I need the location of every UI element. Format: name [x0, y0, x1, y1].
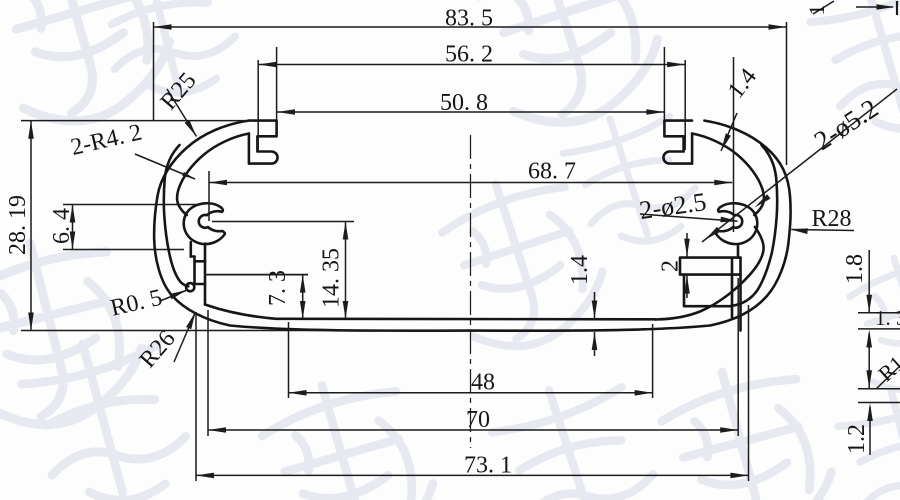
dimension line 68.7: [209, 182, 732, 184]
right channel outer wall: [739, 258, 742, 331]
dimension 1.8 arrows: [868, 250, 870, 312]
left ledge top (7.3 reference): [205, 274, 308, 276]
extension line 56.2 left: [257, 60, 259, 150]
detail diagonal R1: [876, 366, 900, 389]
top right detail arrow: [856, 6, 893, 8]
inner bottom curve left: [205, 305, 276, 319]
extension line 83.5 left: [153, 22, 155, 120]
svg-text:83. 5: 83. 5: [445, 6, 493, 32]
svg-text:50. 8: 50. 8: [440, 90, 488, 116]
extension line 48 right: [652, 324, 654, 398]
vertical centerline: [470, 135, 472, 448]
dimension line 50.8: [277, 111, 664, 113]
svg-text:7. 3: 7. 3: [265, 270, 291, 306]
extension line 68.7 left: [208, 171, 210, 221]
leader 2-phi2.5: [640, 214, 738, 221]
boss-to-rib connector: [737, 246, 740, 258]
cavity floor line: [276, 317, 655, 320]
extension line 6.4 top: [63, 204, 197, 206]
detail feature line 1.8 top: [858, 312, 900, 314]
dimension 2 rib arrows: [686, 233, 688, 257]
extension line 83.5 right: [786, 22, 788, 165]
leader R25: [167, 89, 197, 137]
extension line boss centre: [212, 221, 354, 223]
left column step: [195, 260, 206, 263]
profile outer boundary right half: [471, 121, 791, 331]
right panel-slot inner line to boss: [692, 134, 764, 216]
screw boss with hole, left (mirror): [184, 203, 225, 244]
right screw channel inner wall: [731, 258, 734, 317]
R0.5 bead: [186, 283, 194, 291]
svg-text:48: 48: [471, 370, 495, 396]
leader R0.5: [160, 291, 186, 302]
dimension line 56.2: [259, 64, 686, 66]
leader 1.4 top right: [721, 113, 737, 151]
extension line 56.2 right: [684, 60, 686, 150]
left support column under boss: [204, 244, 207, 305]
dimension line 6.4: [72, 205, 74, 250]
extension line 73.1 left: [195, 312, 197, 481]
svg-text:70: 70: [466, 407, 490, 433]
svg-text:68. 7: 68. 7: [528, 159, 576, 185]
left column left face: [193, 257, 196, 285]
extension line 68.7 right boss: [733, 57, 735, 232]
extension line 73.1 right: [748, 305, 750, 481]
extension line 48 left: [288, 322, 290, 398]
detail feature line 1.2 bottom: [858, 402, 900, 404]
leader 2-R4.2: [135, 154, 195, 179]
right ledge wall: [684, 275, 731, 307]
svg-text:14. 35: 14. 35: [319, 248, 345, 308]
watermark background: [0, 0, 184, 137]
svg-text:2-R4. 2: 2-R4. 2: [68, 119, 144, 161]
svg-text:6. 4: 6. 4: [49, 208, 75, 244]
svg-text:28. 19: 28. 19: [5, 195, 31, 255]
dimension 1.2 arrows: [869, 407, 871, 455]
top slide-groove and hook, right (mirror): [663, 121, 692, 164]
top right leader fragment: [813, 1, 834, 14]
svg-text:R26: R26: [135, 326, 181, 373]
svg-text:1. 3: 1. 3: [875, 306, 900, 330]
left slot floor: [194, 283, 205, 286]
svg-text:1.2: 1.2: [844, 424, 870, 454]
svg-text:R28: R28: [811, 206, 851, 232]
svg-text:2-ø2.5: 2-ø2.5: [638, 187, 709, 225]
dimension 1.4 bottom wall arrows: [594, 292, 596, 319]
extension line 70 left: [207, 310, 209, 436]
right wall inner line: [732, 145, 778, 306]
dimension line 48: [289, 392, 653, 394]
leader R28: [792, 230, 855, 231]
dimension line 83.5: [154, 26, 787, 28]
extension line 6.4 bottom: [63, 249, 184, 251]
right cavity inner corner curve: [655, 227, 764, 320]
top slide-groove and hook, left (rim notch): [249, 121, 278, 164]
svg-text:1.4: 1.4: [567, 255, 593, 285]
extension line 70 right: [737, 278, 739, 436]
top right detail edge: [896, 1, 898, 15]
svg-text:1.8: 1.8: [842, 254, 868, 284]
dimension line 7.3: [302, 275, 304, 319]
dimension line 28.19: [30, 121, 32, 331]
leader 2-phi5.2: [702, 89, 897, 242]
svg-text:R25: R25: [156, 68, 202, 115]
extension line bottom tangent: [21, 330, 470, 332]
leader R26: [174, 313, 195, 362]
svg-text:R0. 5: R0. 5: [108, 285, 165, 322]
detail feature line 1.8 bottom: [858, 328, 900, 330]
extension line 50.8 left: [276, 47, 278, 136]
profile outer boundary left half: [154, 121, 470, 331]
svg-text:56. 2: 56. 2: [445, 42, 493, 68]
screw boss with hole, right: [716, 203, 757, 244]
svg-text:73. 1: 73. 1: [464, 453, 512, 479]
right rib block: [680, 258, 741, 275]
left slot cap: [191, 255, 195, 258]
left boss lower stem: [190, 242, 193, 257]
dimension line 14.35: [345, 222, 347, 320]
detail feature line 1.2 top: [858, 388, 900, 390]
extension line 50.8 right: [663, 47, 665, 136]
dimension line 70: [208, 429, 738, 431]
extension line top of profile: [21, 120, 252, 122]
svg-text:2: 2: [658, 260, 684, 272]
left wall inner line: [164, 145, 189, 286]
left panel-slot inner line to boss: [177, 134, 249, 216]
svg-text:1.4: 1.4: [723, 64, 762, 104]
svg-text:1: 1: [804, 5, 829, 16]
dimension line 73.1: [196, 474, 749, 476]
